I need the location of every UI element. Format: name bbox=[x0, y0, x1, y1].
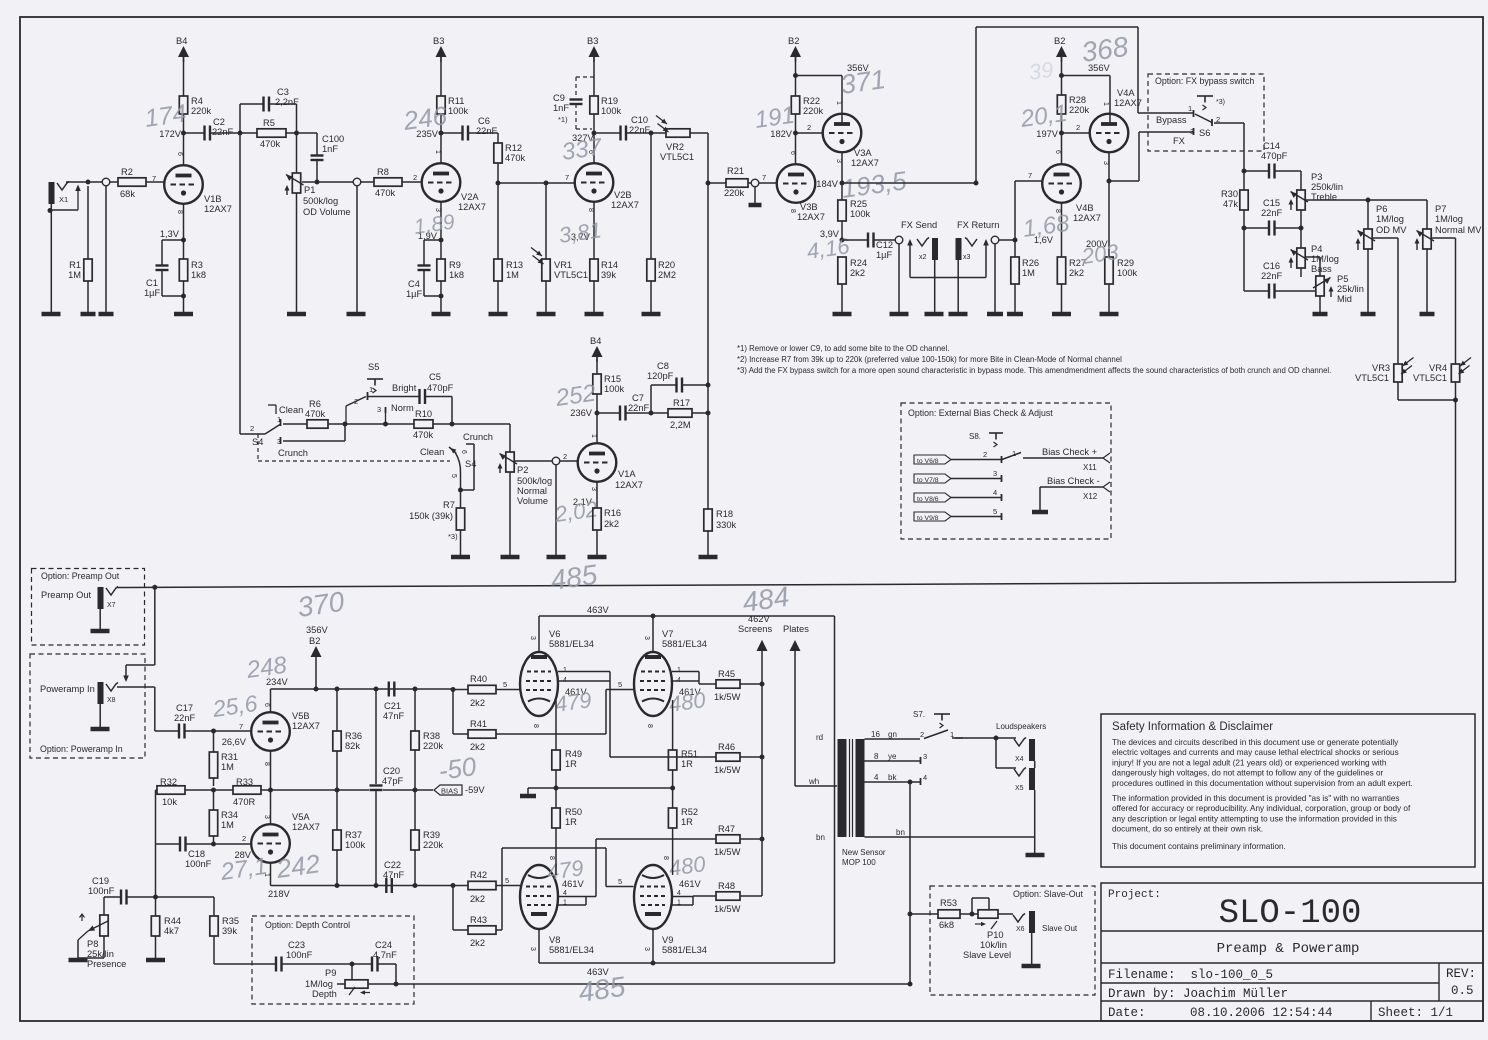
node 234V line bbox=[271, 688, 454, 690]
svg-text:wh: wh bbox=[808, 777, 819, 786]
svg-text:document, do so entirely at th: document, do so entirely at their own ri… bbox=[1112, 825, 1263, 834]
svg-text:Option: Poweramp In: Option: Poweramp In bbox=[40, 744, 123, 754]
svg-text:100k: 100k bbox=[601, 106, 622, 116]
wire P1 wiper to R8 bbox=[302, 181, 353, 183]
capacitor C10 22nF bbox=[619, 126, 621, 141]
ground X1 bbox=[42, 312, 61, 317]
test point circle normal bbox=[552, 457, 560, 465]
svg-text:Crunch: Crunch bbox=[463, 432, 493, 442]
svg-text:8: 8 bbox=[263, 762, 270, 766]
svg-text:Option: Preamp Out: Option: Preamp Out bbox=[41, 571, 120, 581]
svg-text:VTL5C1: VTL5C1 bbox=[1413, 373, 1447, 383]
wire B2 to V4A plate bbox=[1062, 75, 1111, 77]
svg-text:x3: x3 bbox=[963, 254, 971, 261]
svg-text:R19: R19 bbox=[601, 96, 618, 106]
svg-text:bk: bk bbox=[888, 773, 897, 782]
svg-text:4k7: 4k7 bbox=[164, 926, 179, 936]
ground P2 bbox=[501, 555, 520, 560]
capacitor C24 4,7nF bbox=[371, 957, 373, 972]
svg-text:The information provided in th: The information provided in this documen… bbox=[1112, 794, 1400, 803]
svg-text:463V: 463V bbox=[587, 605, 610, 615]
svg-text:4: 4 bbox=[677, 890, 681, 897]
wire bias check minus bbox=[1040, 486, 1103, 488]
svg-text:100nF: 100nF bbox=[286, 950, 313, 960]
svg-text:174: 174 bbox=[143, 99, 188, 133]
svg-text:R6: R6 bbox=[309, 399, 321, 409]
svg-text:82k: 82k bbox=[345, 741, 360, 751]
svg-text:Normal MV: Normal MV bbox=[1435, 225, 1482, 235]
resistor R30 47k bbox=[1243, 171, 1245, 190]
junction V5B grid node bbox=[211, 729, 216, 734]
svg-text:X5: X5 bbox=[1015, 785, 1024, 792]
wire bass out to P5 bbox=[1305, 256, 1320, 258]
svg-text:X1: X1 bbox=[59, 195, 68, 204]
svg-text:Norm: Norm bbox=[391, 403, 414, 413]
svg-text:Plates: Plates bbox=[783, 624, 809, 634]
svg-text:100k: 100k bbox=[604, 384, 625, 394]
svg-text:220k: 220k bbox=[724, 188, 745, 198]
resistor R14 39k bbox=[590, 259, 598, 281]
svg-text:1µF: 1µF bbox=[406, 289, 423, 299]
svg-text:X11: X11 bbox=[1083, 463, 1097, 472]
resistor R53 6k8 bbox=[910, 913, 938, 915]
svg-text:gn: gn bbox=[888, 730, 897, 739]
resistor R38 220k bbox=[414, 689, 416, 731]
svg-text:337: 337 bbox=[560, 133, 605, 166]
svg-text:VR2: VR2 bbox=[666, 142, 684, 152]
svg-text:C5: C5 bbox=[429, 372, 441, 382]
svg-text:R10: R10 bbox=[415, 409, 432, 419]
ground OD test point bbox=[347, 312, 366, 317]
svg-text:REV:: REV: bbox=[1446, 967, 1476, 981]
svg-text:8: 8 bbox=[789, 209, 796, 213]
wire to X4 tip bbox=[996, 737, 1016, 739]
svg-text:P9: P9 bbox=[325, 968, 336, 978]
resistor R40 2k2 bbox=[453, 689, 468, 691]
svg-text:V5A: V5A bbox=[292, 812, 310, 822]
switch S4 lower normal channel bbox=[449, 447, 456, 453]
svg-text:Drawn by: Joachim Müller: Drawn by: Joachim Müller bbox=[1108, 987, 1288, 1001]
svg-text:12AX7: 12AX7 bbox=[204, 204, 232, 214]
option box Poweramp In bbox=[30, 654, 145, 758]
wire C19 node to R35 bbox=[156, 896, 215, 898]
resistor R45 1k/5W bbox=[716, 680, 740, 688]
svg-text:Slave Level: Slave Level bbox=[963, 950, 1011, 960]
wire node to C100 and P1 bbox=[297, 132, 318, 134]
svg-text:R2: R2 bbox=[121, 167, 133, 177]
svg-text:100nF: 100nF bbox=[185, 859, 212, 869]
ground R44 bbox=[146, 958, 165, 963]
junction R42/R43 branch bbox=[451, 883, 456, 888]
svg-text:x2: x2 bbox=[919, 254, 927, 261]
svg-text:6: 6 bbox=[460, 450, 467, 454]
svg-text:22nF: 22nF bbox=[1261, 271, 1283, 281]
V6/V8 cathode resistors column bbox=[555, 700, 557, 750]
svg-text:150k (39k): 150k (39k) bbox=[409, 511, 453, 521]
FX return tip arrow bbox=[985, 244, 987, 278]
ground FX return circle bbox=[987, 312, 1003, 317]
ground R7 bbox=[451, 555, 470, 560]
jack X8 poweramp in bbox=[98, 682, 104, 704]
junction C23/C24/P9 bbox=[350, 962, 355, 967]
svg-text:500k/log: 500k/log bbox=[303, 196, 338, 206]
svg-text:R43: R43 bbox=[470, 915, 487, 925]
svg-text:Date:: Date: bbox=[1108, 1006, 1146, 1020]
svg-text:47pF: 47pF bbox=[382, 776, 404, 786]
svg-text:R38: R38 bbox=[423, 731, 440, 741]
resistor R4 220k bbox=[179, 96, 187, 114]
svg-text:rd: rd bbox=[816, 733, 823, 742]
capacitor C19 100nF bbox=[120, 890, 122, 905]
svg-text:Normal: Normal bbox=[517, 486, 547, 496]
wire B2 to V3A plate bbox=[796, 75, 843, 77]
ground X7 bbox=[91, 629, 110, 634]
svg-text:470k: 470k bbox=[375, 188, 396, 198]
svg-text:Option: FX bypass switch: Option: FX bypass switch bbox=[1155, 76, 1254, 86]
svg-text:Bias Check +: Bias Check + bbox=[1042, 447, 1097, 457]
svg-text:V4B: V4B bbox=[1076, 203, 1094, 213]
resistor R29 100k bbox=[1108, 181, 1110, 257]
B2 rail to V3B plate bbox=[795, 57, 797, 96]
wire input jack to V1B grid bbox=[66, 181, 103, 183]
capacitor C20 47pF bbox=[375, 689, 377, 784]
LDR VR2 VTL5C1 bbox=[651, 132, 666, 134]
svg-text:8: 8 bbox=[646, 724, 653, 728]
V5A cathode wire up bbox=[270, 790, 272, 824]
triode V4A 12AX7 bbox=[1090, 114, 1129, 153]
svg-text:5: 5 bbox=[450, 474, 457, 478]
svg-text:4: 4 bbox=[677, 677, 681, 684]
capacitor C5 470pF bright bbox=[418, 389, 420, 404]
junction crunch node bbox=[343, 422, 348, 427]
resistor R37 100k bbox=[336, 790, 338, 830]
svg-text:12AX7: 12AX7 bbox=[292, 822, 320, 832]
potentiometer P2 500k/log Normal Volume bbox=[506, 452, 514, 472]
B2 supply arrow 2 bbox=[1056, 46, 1067, 57]
svg-text:2M2: 2M2 bbox=[658, 270, 676, 280]
svg-text:470R: 470R bbox=[233, 797, 256, 807]
svg-text:C18: C18 bbox=[188, 849, 205, 859]
svg-text:C15: C15 bbox=[1263, 198, 1280, 208]
junction bypass riser bbox=[974, 181, 979, 186]
svg-text:5: 5 bbox=[503, 680, 507, 689]
svg-text:220k: 220k bbox=[423, 741, 444, 751]
svg-text:479: 479 bbox=[553, 687, 593, 717]
output transformer New Sensor MOP 100 bbox=[834, 616, 836, 963]
node 1,9V bbox=[439, 238, 444, 243]
svg-text:V5B: V5B bbox=[292, 711, 310, 721]
svg-text:12AX7: 12AX7 bbox=[611, 200, 639, 210]
junction R38 bottom bias bbox=[413, 788, 418, 793]
svg-text:VTL5C1: VTL5C1 bbox=[660, 152, 694, 162]
svg-text:Bypass: Bypass bbox=[1156, 115, 1187, 125]
svg-text:1: 1 bbox=[677, 667, 681, 674]
jack X3 FX return bbox=[956, 238, 962, 260]
svg-text:V2A: V2A bbox=[461, 192, 479, 202]
resistor R25 100k bbox=[841, 183, 843, 200]
svg-text:R3: R3 bbox=[191, 260, 203, 270]
wire V4B plate node to V4A grid bbox=[1062, 132, 1090, 134]
svg-text:C10: C10 bbox=[631, 115, 648, 125]
svg-text:BIAS: BIAS bbox=[441, 787, 458, 796]
svg-text:1M/log: 1M/log bbox=[1435, 214, 1463, 224]
wire feedback line to transformer tap bbox=[396, 983, 910, 985]
svg-text:The devices and circuits descr: The devices and circuits described in th… bbox=[1112, 738, 1399, 747]
svg-text:22nF: 22nF bbox=[628, 403, 650, 413]
secondary tap 8 ye bbox=[865, 760, 921, 762]
wire rail tap to R21 bbox=[708, 182, 726, 184]
svg-text:-50: -50 bbox=[437, 751, 479, 786]
junction B2 rail 2 top bbox=[1059, 73, 1064, 78]
wire crunch bypass path bbox=[283, 440, 345, 442]
wire V9 screens to R48 bbox=[693, 895, 716, 897]
svg-text:P1: P1 bbox=[304, 185, 315, 195]
V4B cathode wire bbox=[1061, 203, 1063, 257]
resistor R44 4k7 bbox=[155, 897, 157, 916]
svg-text:08.10.2006 12:54:44: 08.10.2006 12:54:44 bbox=[1190, 1006, 1333, 1020]
svg-text:C22: C22 bbox=[384, 860, 401, 870]
svg-text:12AX7: 12AX7 bbox=[1073, 213, 1101, 223]
svg-text:R50: R50 bbox=[565, 807, 582, 817]
ground test point bbox=[99, 312, 114, 317]
svg-text:1R: 1R bbox=[565, 817, 577, 827]
resistor R28 220k bbox=[1057, 95, 1065, 114]
wire dry signal to bypass riser bbox=[842, 182, 976, 184]
junction preamp out drop bbox=[152, 585, 157, 590]
svg-text:1µF: 1µF bbox=[876, 250, 893, 260]
capacitor C23 100nF bbox=[275, 957, 277, 972]
wire V3B plate node to V3A grid bbox=[796, 132, 823, 134]
ground P8 bbox=[69, 958, 88, 963]
B4 supply arrow bbox=[178, 46, 189, 57]
resistor R34 1M bbox=[209, 810, 217, 836]
svg-text:Preamp Out: Preamp Out bbox=[41, 590, 92, 600]
ground R29 bbox=[1100, 312, 1119, 317]
svg-text:Poweramp In: Poweramp In bbox=[40, 684, 95, 694]
svg-text:OD MV: OD MV bbox=[1376, 225, 1407, 235]
V9 screen stubs bbox=[672, 896, 693, 898]
svg-text:P3: P3 bbox=[1311, 172, 1322, 182]
option box FX bypass switch bbox=[1148, 74, 1264, 151]
svg-text:R13: R13 bbox=[506, 260, 523, 270]
V7 screen stubs bbox=[672, 671, 699, 673]
svg-text:1: 1 bbox=[277, 415, 281, 424]
ground X3 bbox=[949, 312, 968, 317]
svg-text:R34: R34 bbox=[221, 810, 238, 820]
svg-text:This document contains prelimi: This document contains preliminary infor… bbox=[1112, 842, 1286, 851]
svg-text:3: 3 bbox=[263, 815, 270, 819]
node after C2 bbox=[238, 131, 243, 136]
svg-text:12AX7: 12AX7 bbox=[1114, 98, 1142, 108]
svg-text:Safety Information & Disclaime: Safety Information & Disclaimer bbox=[1112, 721, 1273, 733]
svg-text:7: 7 bbox=[152, 174, 156, 183]
node 236V bbox=[595, 411, 600, 416]
resistor R47 1k/5W bbox=[716, 835, 740, 843]
junction C15 left bbox=[1242, 226, 1247, 231]
svg-text:dangerously high voltages, do: dangerously high voltages, do not attemp… bbox=[1112, 769, 1384, 778]
svg-text:184V: 184V bbox=[816, 179, 839, 189]
triode V4B 12AX7 bbox=[1042, 164, 1081, 203]
resistor R21 220k bbox=[726, 179, 748, 187]
svg-text:371: 371 bbox=[839, 64, 888, 100]
svg-text:R11: R11 bbox=[448, 96, 464, 106]
resistor R5 470k bbox=[257, 129, 286, 137]
svg-text:Screens: Screens bbox=[738, 624, 772, 634]
resistor R9 1k8 bbox=[437, 259, 445, 281]
svg-text:C1: C1 bbox=[146, 278, 158, 288]
junction return node bbox=[1013, 238, 1018, 243]
test point circle input bbox=[102, 178, 110, 186]
capacitor C18 100nF bbox=[179, 837, 181, 852]
svg-text:12AX7: 12AX7 bbox=[851, 158, 879, 168]
svg-text:VTL5C1: VTL5C1 bbox=[1355, 373, 1389, 383]
svg-text:356V: 356V bbox=[306, 625, 329, 635]
wire P6 wiper to VR3 bbox=[1372, 237, 1398, 239]
resistor R51 1R bbox=[668, 750, 676, 770]
svg-text:22nF: 22nF bbox=[476, 126, 498, 136]
resistor R15 100k bbox=[593, 374, 601, 394]
wire OD node down to S4 bbox=[239, 133, 241, 434]
capacitor C100 1nF bbox=[311, 154, 324, 156]
svg-text:R49: R49 bbox=[565, 749, 582, 759]
svg-text:S6: S6 bbox=[1199, 128, 1210, 138]
svg-text:3: 3 bbox=[529, 947, 536, 951]
B3 rail 2 to V2B plate bbox=[593, 57, 595, 96]
svg-text:C7: C7 bbox=[632, 393, 644, 403]
svg-text:2k2: 2k2 bbox=[850, 268, 865, 278]
svg-text:to V9/8: to V9/8 bbox=[917, 515, 939, 522]
svg-text:1k/5W: 1k/5W bbox=[714, 904, 741, 914]
junction R40/R41 branch bbox=[451, 687, 456, 692]
node 184V dry signal bbox=[840, 181, 845, 186]
svg-text:3: 3 bbox=[590, 487, 597, 491]
wire R40 to V6 grid bbox=[496, 689, 520, 691]
svg-text:injury! If you are not a legal: injury! If you are not a legal adult (21… bbox=[1112, 758, 1387, 767]
svg-text:Bright: Bright bbox=[392, 383, 417, 393]
svg-text:5: 5 bbox=[618, 877, 622, 886]
svg-text:1k8: 1k8 bbox=[191, 270, 206, 280]
option box Slave-Out bbox=[930, 886, 1095, 995]
svg-text:Project:: Project: bbox=[1108, 889, 1161, 901]
svg-text:C21: C21 bbox=[384, 701, 401, 711]
secondary tap 16 gn bbox=[865, 738, 921, 740]
svg-text:Presence: Presence bbox=[87, 959, 126, 969]
ground V1B cathode bbox=[174, 312, 193, 317]
resistor R6 470k bbox=[307, 420, 328, 428]
capacitor C12 1uF bbox=[842, 239, 868, 241]
svg-text:3: 3 bbox=[277, 437, 281, 446]
B2 supply arrow poweramp bbox=[311, 646, 322, 657]
svg-text:1nF: 1nF bbox=[553, 103, 569, 113]
svg-text:R52: R52 bbox=[681, 807, 698, 817]
svg-text:C2: C2 bbox=[213, 117, 225, 127]
svg-text:R32: R32 bbox=[160, 777, 177, 787]
svg-text:R33: R33 bbox=[236, 777, 253, 787]
svg-text:100k: 100k bbox=[850, 209, 871, 219]
wire S6 pin2 to tone stack bbox=[1214, 122, 1244, 124]
svg-text:R28: R28 bbox=[1069, 95, 1086, 105]
svg-text:Option: External Bias Check &: Option: External Bias Check & Adjust bbox=[908, 408, 1053, 418]
cathode wire V2B bbox=[593, 202, 595, 259]
B2 supply arrow bbox=[790, 46, 801, 57]
svg-text:R15: R15 bbox=[604, 374, 621, 384]
svg-text:C24: C24 bbox=[375, 940, 392, 950]
svg-text:47nF: 47nF bbox=[383, 870, 405, 880]
ground FX send circle bbox=[890, 312, 909, 317]
ground R1 bbox=[81, 312, 96, 317]
svg-text:2: 2 bbox=[242, 834, 246, 843]
svg-text:Crunch: Crunch bbox=[278, 448, 308, 458]
capacitor C22 47nF bbox=[385, 878, 387, 893]
junction lower S4 to R7 bbox=[458, 488, 463, 493]
svg-text:2: 2 bbox=[983, 450, 987, 459]
wire R35 to C23 bbox=[214, 963, 276, 965]
junction input node bbox=[86, 180, 91, 185]
BIAS net flag bbox=[434, 785, 462, 795]
ground R27 bbox=[1052, 312, 1071, 317]
svg-text:2: 2 bbox=[354, 397, 358, 406]
V5A plate wire down bbox=[270, 863, 272, 886]
resistor R26 1M bbox=[1014, 240, 1016, 257]
resistor R19 100k bbox=[590, 96, 598, 114]
ground V1A cathode bbox=[588, 555, 607, 560]
wire speaker line bbox=[955, 737, 996, 739]
svg-text:P5: P5 bbox=[1337, 274, 1348, 284]
wire bypass to S6 pin1 bbox=[1138, 112, 1193, 114]
B4 rail to V1B plate bbox=[183, 57, 185, 96]
svg-text:484: 484 bbox=[741, 581, 792, 618]
svg-text:100k: 100k bbox=[345, 840, 366, 850]
ground X2 bbox=[925, 312, 944, 317]
svg-text:R37: R37 bbox=[345, 830, 362, 840]
svg-text:C9: C9 bbox=[553, 93, 565, 103]
junction C15 right bbox=[1299, 226, 1304, 231]
462V Screens arrow bbox=[758, 640, 767, 649]
capacitor C1 1uF bbox=[162, 239, 184, 241]
bias line bbox=[271, 789, 370, 791]
svg-text:1R: 1R bbox=[565, 759, 577, 769]
svg-text:1: 1 bbox=[677, 900, 681, 907]
svg-text:4: 4 bbox=[563, 677, 567, 684]
svg-text:P2: P2 bbox=[517, 465, 528, 475]
ground V2B cathode bbox=[585, 312, 604, 317]
svg-text:V3B: V3B bbox=[800, 202, 818, 212]
node 1,3V bbox=[181, 238, 186, 243]
svg-text:R16: R16 bbox=[604, 508, 621, 518]
capacitor C16 22nF bbox=[1243, 228, 1245, 291]
svg-text:6: 6 bbox=[1054, 150, 1061, 154]
screens bus bbox=[761, 651, 763, 896]
wire send-return normal link bbox=[910, 277, 986, 279]
svg-text:8: 8 bbox=[532, 724, 539, 728]
switch S8 lever bbox=[1002, 453, 1021, 460]
svg-text:8: 8 bbox=[176, 210, 183, 214]
svg-text:Bias Check -: Bias Check - bbox=[1047, 476, 1100, 486]
pentode V7 5881/EL34 bbox=[634, 652, 672, 716]
resistor R11 100k bbox=[437, 96, 445, 114]
svg-text:C23: C23 bbox=[288, 940, 305, 950]
wire V1B plate to C2 bbox=[184, 132, 205, 134]
jack X6 slave out bbox=[1013, 914, 1025, 923]
svg-text:2,2M: 2,2M bbox=[670, 420, 691, 430]
switch S5 bright bbox=[345, 406, 347, 424]
resistor R42 2k2 bbox=[453, 885, 468, 887]
svg-text:C16: C16 bbox=[1263, 261, 1280, 271]
wire bypass riser up and over bbox=[975, 27, 977, 183]
svg-text:B2: B2 bbox=[788, 36, 799, 46]
potentiometer P1 500k/log OD Volume bbox=[296, 133, 298, 173]
junction B2 rail top bbox=[793, 73, 798, 78]
